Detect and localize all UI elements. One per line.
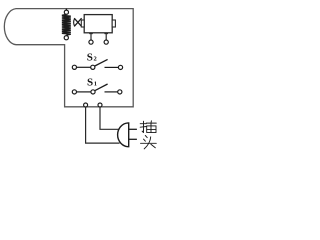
switch S1 left terminal (72, 90, 76, 94)
cord exit terminal right (on body bottom edge) (98, 103, 102, 107)
motor right lead wire (105, 33, 107, 40)
cord wire left (to plug lower contact) (86, 107, 120, 143)
switch S1 left wire (77, 91, 91, 93)
coil winding (62, 14, 71, 35)
svg-text:S2: S2 (87, 52, 97, 64)
coil bottom terminal (64, 36, 68, 40)
motor left lead wire (90, 33, 92, 40)
switch S1 pivot terminal (91, 90, 95, 94)
switch S1 right wire (105, 91, 118, 93)
plug body (118, 123, 129, 147)
motor M body (84, 15, 112, 33)
coil top stub wire (65, 9, 67, 11)
switch S2 right wire (105, 66, 119, 68)
hair dryer body outline (4, 9, 133, 107)
motor right brush block (112, 20, 115, 27)
glyph 头 (141, 136, 157, 149)
motor left terminal (89, 40, 93, 44)
heating element R (coil) (62, 9, 71, 40)
switch S1 right terminal (118, 90, 122, 94)
motor left brush block (81, 20, 84, 27)
fan blade symbol (74, 18, 82, 26)
motor left lead foot serif (89, 33, 93, 35)
label 插头 (plug), hand-drawn glyphs (140, 121, 156, 149)
glyph 插 (140, 121, 156, 133)
svg-text:S1: S1 (87, 76, 97, 88)
motor right lead foot serif (104, 33, 108, 35)
coil top terminal (64, 10, 68, 14)
switch S2 pivot terminal (91, 65, 95, 69)
cord wire right (to plug upper contact) (100, 107, 119, 129)
switch S1 blade arm (95, 84, 108, 91)
switch S2 right terminal (118, 65, 122, 69)
cord exit terminal left (on body bottom edge) (84, 103, 88, 107)
switch S2 blade arm (95, 59, 108, 66)
switch S2 left terminal (72, 65, 76, 69)
switch S2 left wire (77, 66, 91, 68)
plug upper prong (129, 128, 137, 130)
plug lower prong (129, 138, 137, 140)
motor right terminal (104, 40, 108, 44)
